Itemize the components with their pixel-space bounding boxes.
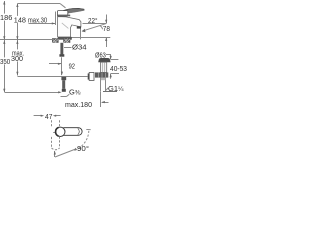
svg-text:22°: 22° [88,16,98,25]
svg-text:90°: 90° [77,144,89,153]
svg-text:40-53: 40-53 [110,66,127,73]
svg-text:max.30: max.30 [28,15,47,24]
svg-text:Ø34: Ø34 [72,43,87,52]
svg-text:47: 47 [45,112,52,121]
svg-text:148: 148 [14,15,26,24]
svg-text:max.180: max.180 [65,100,92,109]
svg-text:78: 78 [103,24,110,33]
svg-text:Ø63: Ø63 [95,52,106,59]
svg-text:350: 350 [0,57,10,66]
svg-text:G⅜: G⅜ [69,88,81,97]
svg-text:300: 300 [11,54,23,63]
svg-text:92: 92 [69,64,75,71]
svg-text:G1¼: G1¼ [108,84,124,93]
svg-text:186: 186 [0,13,12,22]
